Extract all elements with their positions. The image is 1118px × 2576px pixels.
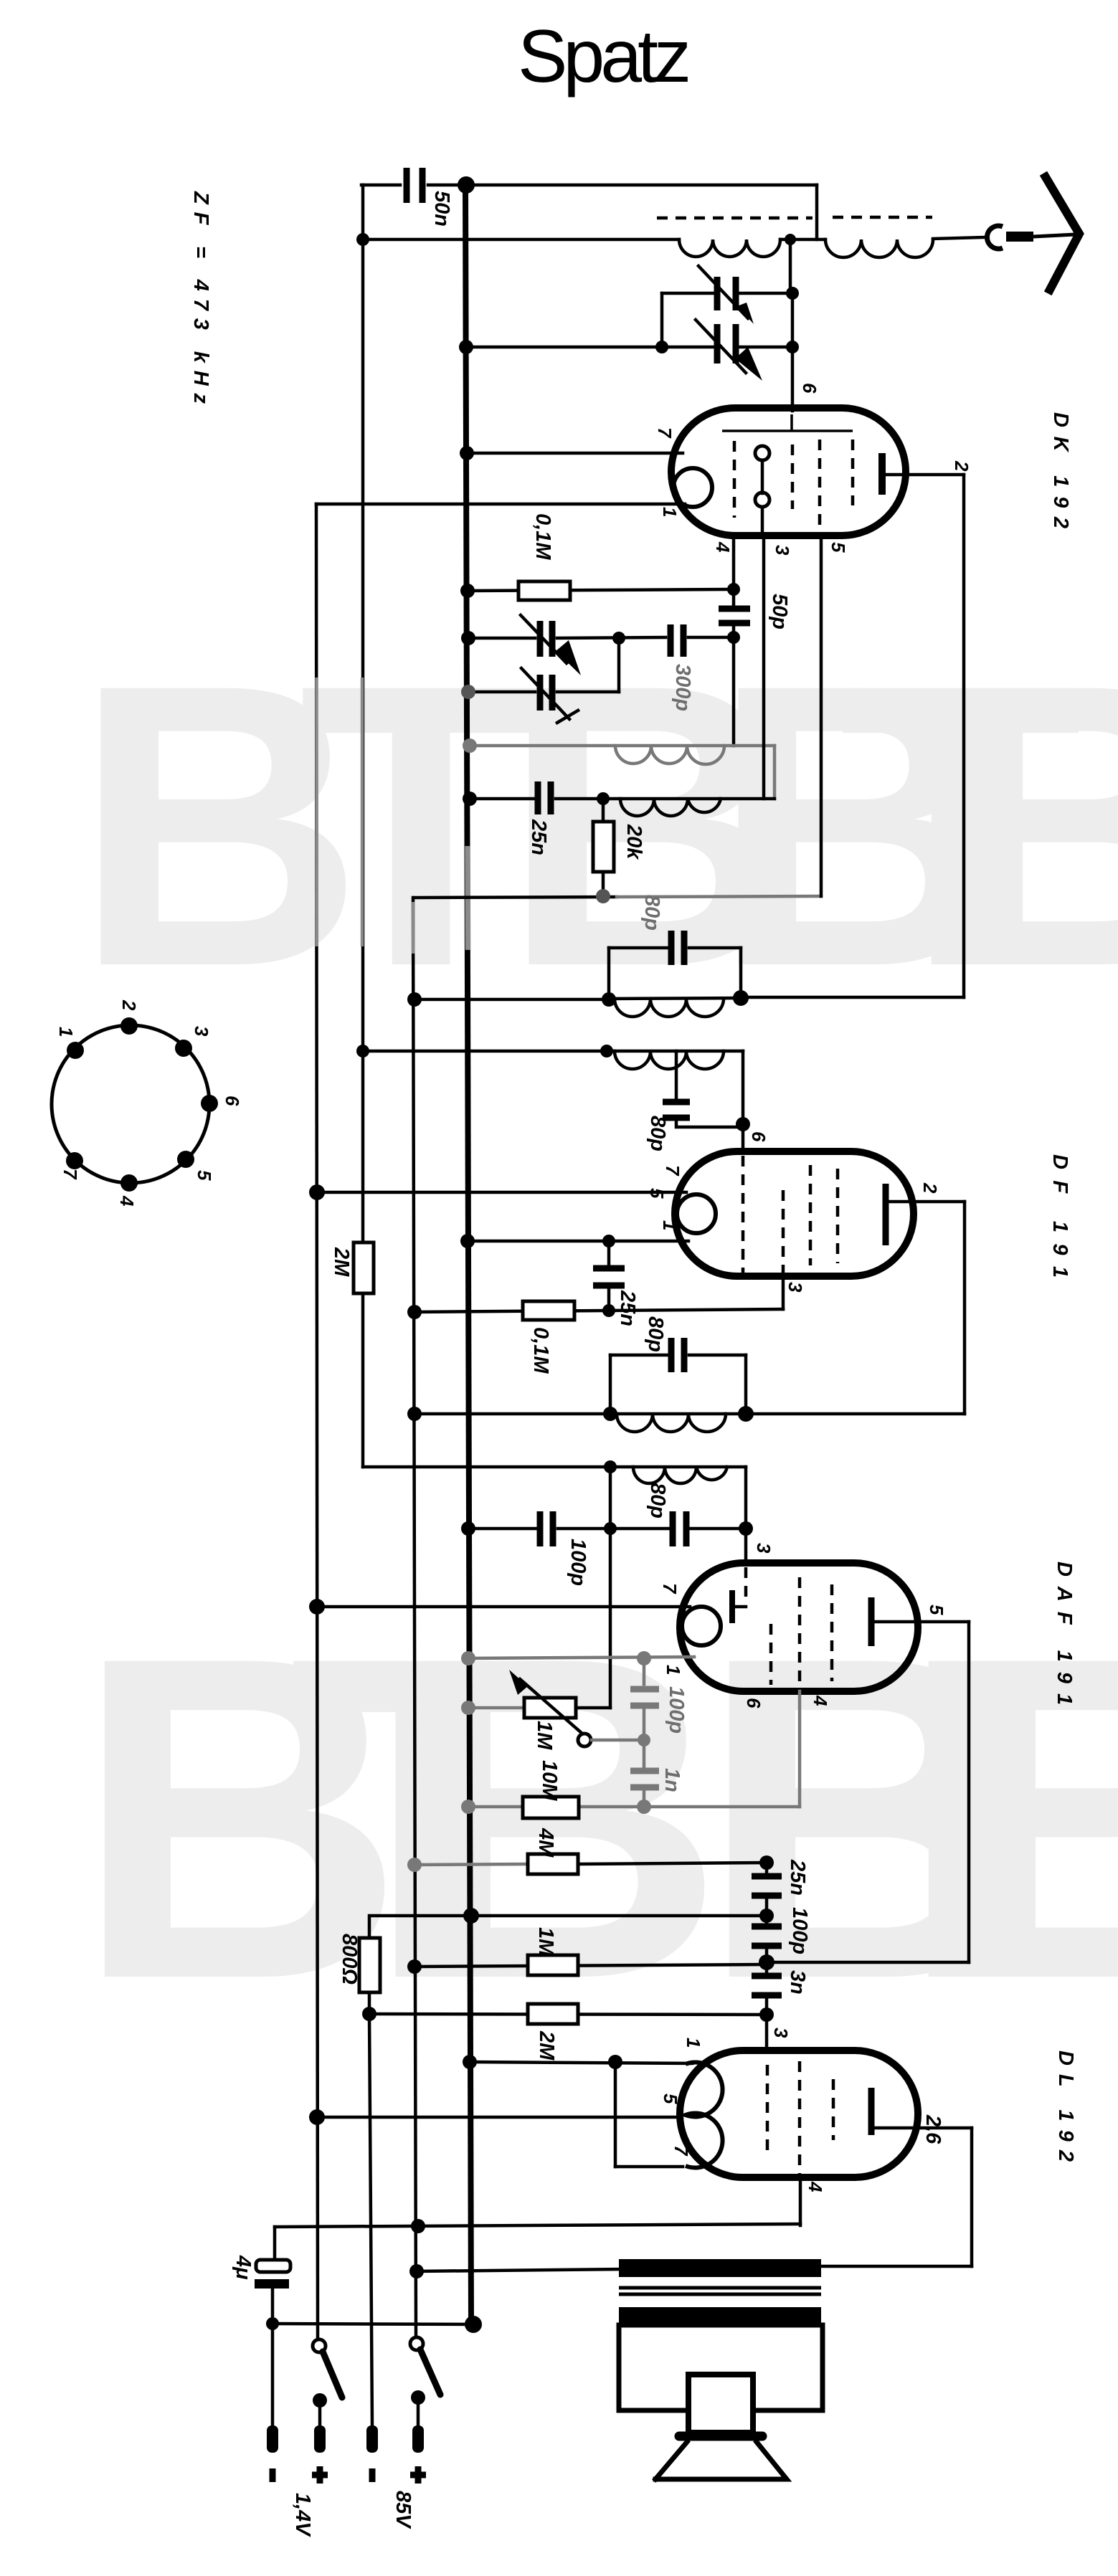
IF transformer 2 primary: capacitor 80p [610, 1354, 668, 1357]
svg-text:5: 5 [828, 542, 849, 553]
svg-text:2M: 2M [330, 1247, 353, 1277]
svg-text:50n: 50n [430, 191, 453, 227]
DK192 pin1 wire from bus A [316, 503, 685, 506]
speaker frame [619, 2325, 823, 2410]
wire tuning caps to DK192 grid pin 6 [791, 293, 795, 411]
resistor 1M wire [414, 1964, 767, 1967]
bus D vertical thick (x=651) [465, 185, 471, 2324]
svg-text:25n: 25n [786, 1859, 809, 1896]
svg-text:10M: 10M [538, 1760, 561, 1801]
antenna rail y=334 [363, 238, 679, 242]
svg-text:1n: 1n [660, 1768, 683, 1792]
svg-text:1: 1 [663, 1665, 684, 1675]
bus A vertical (x=443) [316, 504, 318, 2340]
DF191 filament loop [677, 1194, 716, 1233]
DL192 filament loops [686, 2063, 723, 2168]
svg-text:3: 3 [191, 1026, 212, 1037]
antenna connector (open arc) [987, 226, 1003, 249]
DL192 pin5 wire from bus A [317, 2116, 681, 2119]
DK192 pin3 cathode wire down to coil tap [762, 536, 766, 799]
DK192 internal grids (dashed) [733, 441, 736, 518]
svg-text:3: 3 [753, 1543, 774, 1554]
svg-text:1M: 1M [534, 1927, 557, 1957]
DAF191 diode anode pin5 wire [875, 1620, 969, 1624]
svg-text:3: 3 [785, 1282, 806, 1293]
svg-text:3: 3 [770, 2028, 792, 2038]
resistor 4M wire [414, 1864, 528, 1865]
IF1 secondary coil wire from bus B [363, 1050, 743, 1053]
DK192 pin7 wire [467, 452, 683, 455]
variable capacitor C-ant (tuning gang 2) [468, 346, 713, 349]
capacitor 300p [668, 624, 674, 657]
DAF191 filament loop [682, 1607, 721, 1645]
svg-text:6: 6 [222, 1095, 243, 1106]
DL192 pin7 wire [614, 2062, 617, 2167]
DF191 internal grids (dashed) [742, 1156, 745, 1273]
svg-text:2M: 2M [535, 2030, 558, 2061]
svg-text:80p: 80p [646, 1483, 669, 1518]
IF1 secondary right side down to DF191 pin6 [742, 1051, 745, 1150]
svg-text:1: 1 [659, 507, 681, 517]
wire coil junction down to tuning caps [789, 239, 792, 293]
gray branch: capacitor 1n [630, 1768, 659, 1774]
antenna coil L1 (3 bumps) [679, 239, 780, 257]
top rail y=258 with capacitor 50n [361, 184, 400, 187]
svg-text:6: 6 [748, 1131, 769, 1142]
filament wire y=1731 from bus D to DF191 pins 1,5 [468, 1240, 688, 1243]
svg-text:6: 6 [743, 1698, 764, 1708]
svg-text:3: 3 [772, 545, 793, 556]
coupling cap stack: capacitor 25n [759, 1855, 774, 1870]
DF191 pin3 wire [782, 1276, 785, 1309]
bus C vertical (x=578) [413, 898, 416, 2338]
svg-text:1: 1 [55, 1027, 77, 1037]
antenna stub [1006, 232, 1033, 242]
svg-text:1: 1 [683, 2038, 704, 2048]
battery lead 1 [271, 2324, 275, 2426]
svg-text:4: 4 [712, 541, 734, 553]
svg-text:5: 5 [194, 1170, 215, 1181]
DAF191 pin7 wire from bus A [317, 1605, 690, 1609]
svg-text:2: 2 [951, 460, 972, 472]
tube DK192 envelope [671, 408, 906, 536]
DK192 filament tap circles [755, 446, 769, 460]
IF1 primary coil [609, 998, 741, 999]
DK192 pin5 wire down [820, 536, 823, 896]
svg-text:4: 4 [810, 1695, 831, 1706]
svg-text:4M: 4M [534, 1828, 557, 1858]
antenna symbol [1046, 177, 1079, 290]
corner wire down to antenna coil [815, 185, 819, 239]
resistor 2M (in bus B) [354, 1242, 374, 1293]
resistor 10M wire (gray) [468, 1805, 800, 1809]
svg-text:50p: 50p [768, 594, 791, 629]
resistor 0,1M (screen feed) [414, 1309, 783, 1312]
svg-text:1: 1 [659, 1220, 681, 1230]
IF transformer 1 primary: capacitor 80p [609, 946, 668, 950]
socket pin numbers [55, 999, 243, 1207]
IF2 primary sides [609, 1355, 612, 1414]
rail y=3103 [275, 2224, 800, 2227]
svg-text:100p: 100p [665, 1686, 688, 1734]
svg-text:300p: 300p [671, 664, 694, 711]
svg-text:1M: 1M [533, 1721, 556, 1750]
capacitor 100p [752, 1924, 782, 1930]
antenna coil L2 (3 bumps) [825, 239, 933, 257]
bus B vertical (x=506) [361, 185, 365, 1242]
svg-text:7: 7 [662, 1165, 683, 1177]
minus 85V line down from 800 ohm [369, 2014, 372, 2425]
svg-text:4μ: 4μ [232, 2255, 255, 2280]
svg-text:25n: 25n [527, 819, 550, 855]
svg-text:0,1M: 0,1M [529, 1327, 552, 1374]
DF191 anode bar [883, 1184, 889, 1245]
DL192 internal grids (dashed) [766, 2065, 769, 2154]
svg-text:2: 2 [118, 999, 140, 1011]
battery terminal stubs [267, 2425, 278, 2453]
potentiometer 1M (volume) [468, 1706, 524, 1710]
socket pinout circle [52, 1025, 209, 1183]
svg-text:1,4V: 1,4V [291, 2493, 314, 2537]
IF2 secondary cap wire y=2132 with 100p and 80p [468, 1527, 536, 1531]
svg-text:4: 4 [116, 1195, 138, 1207]
svg-text:2: 2 [919, 1182, 941, 1194]
tube DAF191 envelope [680, 1563, 918, 1691]
DL192 pin4 wire down [799, 2176, 802, 2225]
speaker cone [655, 2442, 787, 2479]
svg-text:80p: 80p [640, 895, 663, 931]
DAF191 diode plate [729, 1590, 735, 1623]
DAF191 internal grids (dashed) [744, 1567, 748, 1602]
oscillator coil B with capacitor 25n [470, 797, 534, 801]
IF1 primary left/right sides [607, 948, 611, 999]
bottom rail y=3241 [273, 2324, 473, 2324]
oscillator coil A (gray) [470, 744, 774, 748]
resistor 20k (vertical) [602, 799, 605, 822]
svg-text:0,1M: 0,1M [531, 513, 554, 560]
junction dot top of bus D [458, 176, 475, 194]
DF191 anode pin2 wire to IF2 [889, 1200, 965, 1204]
svg-text:800Ω: 800Ω [338, 1934, 361, 1985]
capacitor 4u electrolytic [273, 2227, 277, 2260]
DK192 anode bar [878, 453, 886, 495]
DAF191 pin4 wire (gray) [798, 1691, 802, 1807]
coupling core dashes [657, 217, 813, 220]
DL192 anode bar [868, 2088, 875, 2135]
svg-text:20k: 20k [622, 824, 645, 860]
svg-text:7: 7 [654, 427, 676, 439]
svg-text:85V: 85V [392, 2491, 414, 2529]
svg-text:25n: 25n [616, 1290, 639, 1326]
rail IF1 to DK192 anode [741, 996, 964, 999]
resistor 0,1M (osc grid leak) wire [468, 589, 734, 591]
trimmer capacitor 2 wire y=965 [468, 690, 535, 694]
DK192 anode pin2 wire to IF1 [886, 473, 964, 477]
AVC vertical x=851 [609, 1467, 612, 1658]
DAF191 anode bar [868, 1597, 875, 1646]
IF2 secondary coil wire from bus B corner [363, 1465, 746, 1469]
gray branch: capacitor 100p [643, 1658, 646, 1684]
capacitor 3n [752, 1973, 782, 1979]
variable capacitor C-osc (tuning gang 1) [662, 292, 713, 295]
switch 1 [313, 2339, 326, 2352]
svg-text:7: 7 [60, 1169, 81, 1180]
svg-text:Spatz: Spatz [518, 15, 691, 98]
antenna feed line [1033, 234, 1076, 237]
output transformer winding bars [619, 2259, 821, 2277]
grid rail y=1663 from bus A to DF191 pin7 [317, 1191, 686, 1194]
polarity marks [270, 2468, 276, 2482]
link wire between gang sections [660, 293, 664, 347]
DK192 pin4 wire down with capacitor 50p [732, 536, 736, 605]
trimmer capacitor (osc padder) in wire y=890 [468, 637, 535, 640]
capacitor 25n (DF191 screen bypass) [607, 1241, 611, 1265]
svg-text:100p: 100p [788, 1907, 811, 1954]
tube DF191 envelope [675, 1151, 914, 1276]
rail bus C to IF2 to DF191 anode [414, 1412, 610, 1416]
gray scan segments of buses in watermark band [315, 678, 318, 946]
svg-text:80p: 80p [646, 1116, 669, 1151]
watermark band 2 letters BTBBTB [74, 1562, 1118, 2074]
speaker voice coil [688, 2375, 753, 2433]
svg-text:4: 4 [805, 2181, 826, 2192]
svg-text:B: B [939, 1562, 1118, 2074]
svg-text:3n: 3n [786, 1970, 809, 1995]
speaker rim bar [679, 2432, 762, 2441]
DL192 anode wire to output transformer [875, 2126, 972, 2130]
svg-text:5: 5 [926, 1605, 947, 1615]
IF1 secondary capacitor 80p (vertical branch) [675, 1051, 678, 1098]
svg-text:80p: 80p [644, 1316, 667, 1352]
IF2 secondary right side down to DAF191 pin3 [744, 1467, 748, 1564]
rail y=3167 to transformer [417, 2269, 624, 2271]
DL192 pin1 wire [470, 2062, 692, 2063]
DK192 filament loop [673, 468, 712, 507]
switch 2 [410, 2337, 423, 2350]
node: coil junction [785, 234, 796, 245]
IF2 primary coil [610, 1412, 746, 1416]
wire bus C to IF1 [414, 998, 609, 1002]
svg-text:7: 7 [659, 1583, 681, 1594]
resistor 2M wire [369, 2014, 767, 2015]
tube DL192 envelope [680, 2050, 918, 2177]
feed wire y=1250 from bus C to DK192 pin5 [414, 897, 617, 898]
svg-text:6: 6 [799, 383, 820, 394]
svg-text:100p: 100p [567, 1539, 589, 1586]
screen feed wire y=2672 with resistor 800 ohm [369, 1916, 767, 1938]
DK192 internal screen connection line [722, 414, 853, 431]
watermark band 1 letters BTBBTB [74, 601, 1118, 1050]
DAF191 pin1 wire (gray) from bus D [468, 1657, 694, 1658]
socket pin dots [66, 1017, 218, 1192]
